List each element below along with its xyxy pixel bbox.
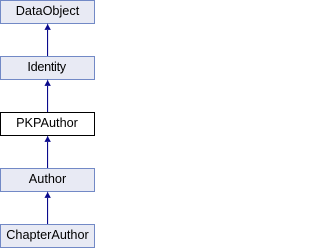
arrow ChapterAuthor to Author: [44, 191, 50, 224]
node DataObject: [0, 0, 95, 24]
arrow Author to PKPAuthor: [44, 135, 50, 168]
arrow PKPAuthor to Identity: [44, 79, 50, 112]
node ChapterAuthor: [0, 224, 95, 248]
arrow Identity to DataObject: [44, 23, 50, 56]
node PKPAuthor (current class): [0, 112, 95, 136]
node Author: [0, 168, 95, 192]
inheritance arrows: [0, 0, 95, 248]
node Identity: [0, 56, 95, 80]
